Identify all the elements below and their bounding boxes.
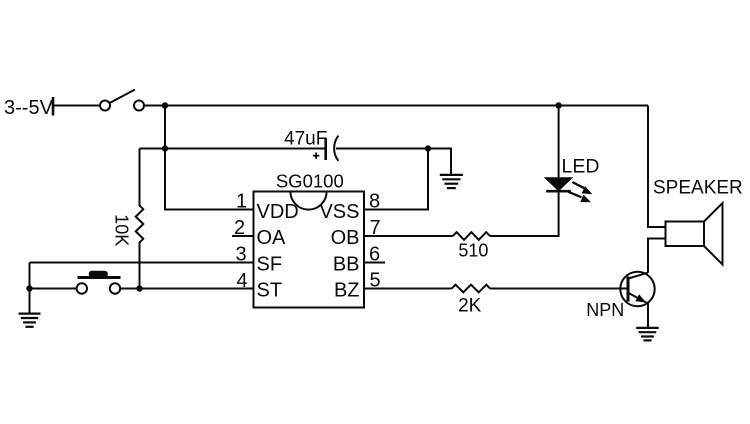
transistor Q1 collector [629, 273, 649, 279]
wire pin 5 BZ to resistor [364, 288, 452, 290]
wire 510 to LED cathode [490, 193, 559, 237]
wire capacitor rail [140, 148, 326, 150]
svg-text:ST: ST [257, 280, 283, 302]
capacitor C1 plus sign [313, 153, 319, 159]
transistor Q1 circle [620, 272, 654, 306]
svg-text:10K: 10K [111, 214, 131, 246]
ground near capacitor [440, 175, 463, 188]
pushbutton SW2 actuator bar [78, 276, 121, 279]
resistor R1 10K vertical [136, 149, 144, 289]
LED D1 triangle [546, 178, 571, 190]
junction node top rail / LED [555, 102, 561, 108]
LED D1 cathode bar [546, 190, 571, 193]
pin 2 stub OA [232, 235, 254, 237]
LED arrow 1 [572, 182, 584, 188]
svg-text:4: 4 [236, 270, 247, 292]
speaker LS1 body [666, 222, 705, 247]
wire 2K to transistor base [490, 288, 627, 290]
IC U1 SG0100 body [254, 192, 365, 308]
speaker LS1 horn [704, 203, 723, 265]
wire speaker lower stub to collector [648, 239, 666, 273]
wire ST right segment to pin 4 [120, 288, 253, 290]
switch S1 left contact [100, 101, 110, 111]
wire top rail [144, 105, 648, 107]
svg-text:NPN: NPN [586, 300, 624, 320]
junction node ST / 10K [136, 285, 142, 291]
transistor Q1 emitter arrowhead [635, 294, 646, 302]
ground bottom left [19, 314, 41, 327]
LED arrow 2 [568, 192, 581, 198]
svg-text:OA: OA [257, 227, 287, 249]
svg-text:3: 3 [235, 244, 246, 266]
wire SF down to ground node [29, 263, 31, 313]
transistor Q1 base bar [627, 277, 630, 302]
resistor R3 2K [452, 285, 490, 293]
transistor Q1 emitter [629, 293, 649, 304]
svg-text:6: 6 [369, 244, 380, 266]
wire VSS branch [364, 149, 428, 210]
pin 6 stub BB [364, 262, 385, 264]
svg-text:VSS: VSS [319, 201, 359, 223]
resistor R2 510 [453, 232, 490, 240]
switch S1 right contact [134, 101, 144, 111]
svg-text:8: 8 [369, 191, 380, 213]
svg-text:VDD: VDD [257, 201, 299, 223]
junction node cap rail / VSS branch [425, 145, 431, 151]
svg-text:BB: BB [333, 253, 360, 275]
power terminal 3--5V [52, 97, 55, 116]
wire power terminal to switch [54, 105, 100, 107]
ground below transistor [636, 328, 659, 341]
svg-text:7: 7 [369, 217, 380, 239]
switch S1 lever [110, 90, 136, 104]
pushbutton SW2 right contact [110, 283, 120, 293]
svg-text:1: 1 [236, 191, 247, 213]
svg-text:SG0100: SG0100 [276, 170, 344, 191]
junction node ST / ground branch [26, 285, 32, 291]
svg-text:5: 5 [369, 270, 380, 292]
IC U1 notch [290, 192, 326, 210]
svg-text:OB: OB [331, 227, 360, 249]
wire ST left segment [30, 288, 77, 290]
svg-text:LED: LED [562, 156, 600, 178]
svg-text:47uF: 47uF [284, 129, 327, 150]
capacitor C1 positive plate [324, 138, 327, 160]
capacitor C1 curved plate [334, 136, 338, 161]
wire emitter to ground [647, 303, 649, 327]
wire right rail down to speaker [648, 106, 666, 228]
junction node top rail / VDD branch [162, 102, 168, 108]
svg-text:510: 510 [458, 241, 488, 261]
wire VDD branch vertical [165, 106, 254, 210]
wire capacitor to ground corner [336, 149, 451, 175]
wire pin 3 SF [30, 262, 254, 264]
svg-text:BZ: BZ [334, 280, 360, 302]
LED anode wire [558, 106, 560, 179]
junction node cap rail / VDD branch [162, 145, 168, 151]
pushbutton SW2 left contact [77, 283, 87, 293]
pushbutton SW2 button cap [90, 272, 107, 277]
svg-text:3--5V: 3--5V [4, 97, 54, 119]
svg-text:2K: 2K [458, 296, 482, 317]
svg-text:2: 2 [234, 217, 245, 239]
svg-text:SF: SF [257, 253, 283, 275]
wire pin 7 OB to resistor [364, 235, 453, 237]
svg-text:SPEAKER: SPEAKER [653, 178, 743, 199]
